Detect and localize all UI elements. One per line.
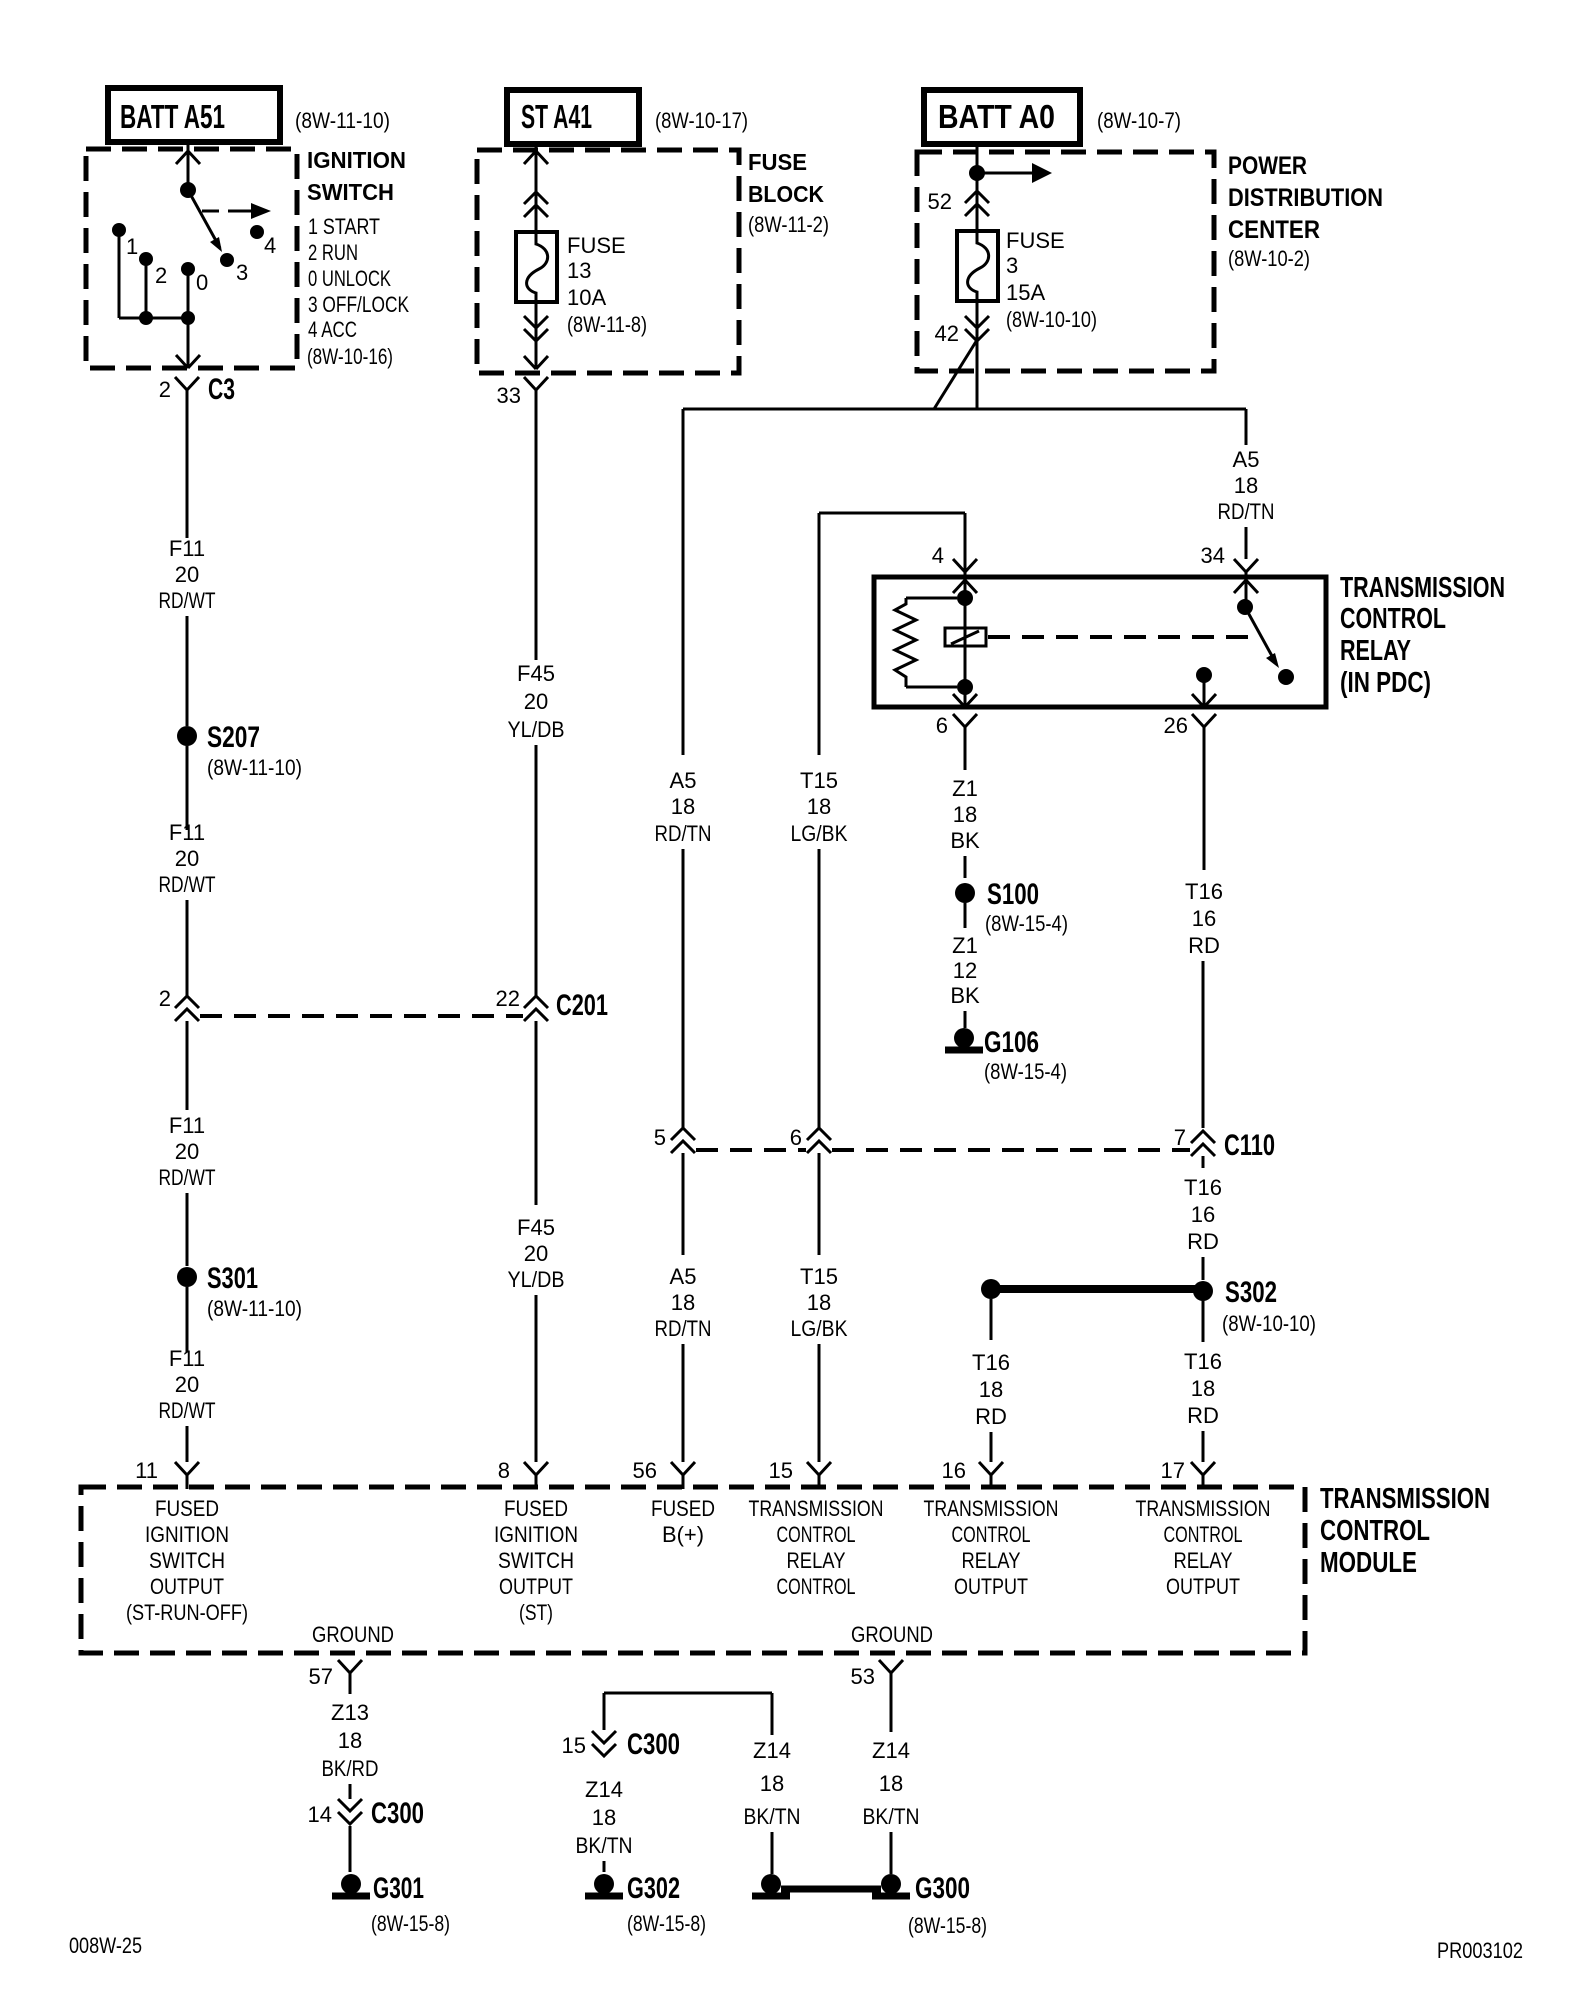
fuse 3 15A <box>957 228 1097 332</box>
wire T15 18 LG/BK (segment 2) <box>791 1264 848 1462</box>
svg-text:13: 13 <box>567 258 591 283</box>
wire T15 18 LG/BK (segment 1) <box>791 768 848 1128</box>
svg-text:Z13: Z13 <box>331 1700 369 1725</box>
drawing number <box>1437 1938 1523 1963</box>
svg-text:RD: RD <box>1187 1403 1219 1428</box>
TCM ground label 53 <box>851 1622 933 1647</box>
wire F45 20 YL/DB (segment 2) <box>508 1215 565 1462</box>
svg-text:56: 56 <box>633 1458 657 1483</box>
svg-text:(8W-10-16): (8W-10-16) <box>307 344 393 369</box>
svg-text:0: 0 <box>196 270 208 295</box>
svg-text:BLOCK: BLOCK <box>748 181 824 207</box>
wire A5 18 RD/TN (segment 2) <box>655 1264 712 1462</box>
svg-text:CENTER: CENTER <box>1228 216 1320 244</box>
svg-text:(8W-15-4): (8W-15-4) <box>985 911 1068 936</box>
wire T16 16 RD (segment 1) <box>1185 879 1223 1128</box>
PDC branch arrow <box>977 163 1052 183</box>
svg-text:RD/WT: RD/WT <box>159 588 216 613</box>
relay pin 4 <box>932 513 977 687</box>
svg-text:RD/TN: RD/TN <box>655 1316 712 1341</box>
connector C110 pin 7 <box>1174 1125 1275 1168</box>
svg-text:S302: S302 <box>1225 1276 1277 1309</box>
wire Z14 18 BK/TN (right) <box>863 1738 920 1874</box>
TCM pin 16 function <box>924 1496 1059 1599</box>
svg-text:BK: BK <box>950 828 980 853</box>
svg-text:18: 18 <box>807 794 831 819</box>
svg-text:12: 12 <box>953 958 977 983</box>
svg-text:18: 18 <box>953 802 977 827</box>
contact 1 START <box>112 223 138 318</box>
svg-text:TRANSMISSION: TRANSMISSION <box>1136 1496 1271 1521</box>
svg-text:T16: T16 <box>1185 879 1223 904</box>
svg-text:RD/TN: RD/TN <box>1218 499 1275 524</box>
svg-text:42: 42 <box>935 321 959 346</box>
svg-text:CONTROL: CONTROL <box>1320 1515 1430 1547</box>
svg-text:18: 18 <box>979 1377 1003 1402</box>
wire Z13 18 BK/RD <box>322 1700 379 1799</box>
svg-text:0 UNLOCK: 0 UNLOCK <box>308 266 391 291</box>
svg-text:TRANSMISSION: TRANSMISSION <box>924 1496 1059 1521</box>
svg-text:(8W-10-2): (8W-10-2) <box>1228 246 1310 271</box>
ground G302 <box>585 1872 706 1936</box>
svg-text:16: 16 <box>1191 1202 1215 1227</box>
svg-text:3: 3 <box>1006 253 1018 278</box>
contact 0 UNLOCK <box>181 262 208 318</box>
TCM pin 8 function <box>494 1496 578 1625</box>
svg-text:RD: RD <box>1187 1229 1219 1254</box>
splice S207 <box>177 721 302 830</box>
svg-text:S207: S207 <box>207 721 260 754</box>
svg-text:G106: G106 <box>984 1026 1039 1059</box>
node BATT A0 feed box <box>924 90 1181 144</box>
TCM pin 16 <box>942 1458 1003 1489</box>
TCM pin 11 <box>135 1458 199 1489</box>
wire T16 16 RD (segment 2) <box>1184 1175 1222 1280</box>
wire relay coil control run <box>819 513 965 755</box>
relay switch common <box>1237 599 1253 615</box>
svg-text:CONTROL: CONTROL <box>952 1522 1031 1547</box>
svg-text:20: 20 <box>175 846 199 871</box>
svg-text:T15: T15 <box>800 1264 838 1289</box>
node ST A41 feed box <box>507 90 748 144</box>
wire Z1 12 BK <box>950 933 980 1028</box>
svg-text:RD: RD <box>1188 933 1220 958</box>
wire pin 42 diagonal branch <box>934 340 977 409</box>
svg-text:18: 18 <box>1234 473 1258 498</box>
svg-text:6: 6 <box>790 1125 802 1150</box>
svg-text:20: 20 <box>524 1241 548 1266</box>
sheet number <box>69 1933 142 1958</box>
svg-text:(8W-11-10): (8W-11-10) <box>207 1296 302 1321</box>
relay switch contact <box>1278 669 1294 685</box>
svg-text:RELAY: RELAY <box>1340 635 1411 667</box>
svg-text:G302: G302 <box>627 1872 680 1905</box>
svg-text:RELAY: RELAY <box>1174 1548 1233 1573</box>
svg-text:SWITCH: SWITCH <box>149 1548 225 1573</box>
svg-text:(8W-10-17): (8W-10-17) <box>655 108 748 133</box>
ignition switch common pole <box>180 182 196 198</box>
svg-text:FUSE: FUSE <box>748 149 807 175</box>
svg-text:(8W-11-10): (8W-11-10) <box>295 108 390 133</box>
svg-text:OUTPUT: OUTPUT <box>499 1574 573 1599</box>
svg-text:LG/BK: LG/BK <box>791 1316 848 1341</box>
svg-text:(8W-11-2): (8W-11-2) <box>748 212 829 237</box>
svg-text:34: 34 <box>1201 543 1225 568</box>
connector pin 33 <box>497 377 548 660</box>
svg-text:DISTRIBUTION: DISTRIBUTION <box>1228 184 1383 212</box>
ignition switch legend <box>307 147 409 369</box>
wire T16 18 RD (to pin 17) <box>1184 1349 1222 1462</box>
svg-text:YL/DB: YL/DB <box>508 1267 565 1292</box>
svg-text:2: 2 <box>155 263 167 288</box>
svg-text:15: 15 <box>769 1458 793 1483</box>
svg-text:BK/TN: BK/TN <box>744 1804 801 1829</box>
svg-text:A5: A5 <box>1233 447 1260 472</box>
svg-text:Z14: Z14 <box>872 1738 910 1763</box>
svg-text:IGNITION: IGNITION <box>145 1522 229 1547</box>
svg-text:57: 57 <box>309 1664 333 1689</box>
svg-text:F45: F45 <box>517 661 555 686</box>
svg-text:18: 18 <box>592 1805 616 1830</box>
svg-text:F45: F45 <box>517 1215 555 1240</box>
wire A5 18 RD/TN to relay 34 <box>1218 409 1275 559</box>
svg-text:RD/WT: RD/WT <box>159 1165 216 1190</box>
svg-text:18: 18 <box>671 794 695 819</box>
svg-text:FUSED: FUSED <box>651 1496 715 1521</box>
dashed connector line C110 <box>696 1148 1190 1152</box>
connector C300 pin 15 <box>562 1728 680 1761</box>
svg-text:TRANSMISSION: TRANSMISSION <box>749 1496 884 1521</box>
connector C201 pin 22 <box>496 986 608 1205</box>
TCM pin 15 function <box>749 1496 884 1599</box>
ignition switch wiper arm <box>188 190 222 252</box>
svg-text:BK/TN: BK/TN <box>863 1804 920 1829</box>
wire T16 18 RD (to pin 16) <box>972 1299 1010 1462</box>
svg-text:15A: 15A <box>1006 280 1045 305</box>
svg-text:T16: T16 <box>972 1350 1010 1375</box>
svg-text:T16: T16 <box>1184 1175 1222 1200</box>
svg-text:F11: F11 <box>169 820 205 845</box>
svg-text:Z1: Z1 <box>952 776 978 801</box>
relay actuation dashed link <box>988 635 1253 639</box>
contact 2 RUN <box>139 252 167 318</box>
svg-text:IGNITION: IGNITION <box>494 1522 578 1547</box>
wire ground jumper <box>604 1693 772 1735</box>
ignition switch rotation arrow <box>202 203 271 219</box>
connector C300 pin 14 <box>308 1797 424 1872</box>
svg-text:5: 5 <box>654 1125 666 1150</box>
heavy ground tie bar <box>781 1886 881 1893</box>
svg-text:BK: BK <box>950 983 980 1008</box>
ground G300 <box>872 1872 987 1938</box>
svg-text:3 OFF/LOCK: 3 OFF/LOCK <box>308 292 409 317</box>
svg-text:4: 4 <box>932 543 944 568</box>
svg-text:2 RUN: 2 RUN <box>308 240 358 265</box>
svg-text:F11: F11 <box>169 1346 205 1371</box>
svg-text:TRANSMISSION: TRANSMISSION <box>1320 1483 1490 1515</box>
svg-text:C300: C300 <box>627 1728 680 1761</box>
TCM pin 57 <box>309 1660 362 1694</box>
svg-text:RELAY: RELAY <box>787 1548 846 1573</box>
svg-text:OUTPUT: OUTPUT <box>1166 1574 1240 1599</box>
svg-text:RELAY: RELAY <box>962 1548 1021 1573</box>
wire Z14 18 BK/TN (left) <box>576 1777 633 1872</box>
wire A5 branch down-left <box>682 409 685 755</box>
relay switch arm <box>1245 607 1279 668</box>
svg-text:B(+): B(+) <box>662 1522 704 1547</box>
svg-text:OUTPUT: OUTPUT <box>954 1574 1028 1599</box>
dashed connector line C201 <box>200 1014 523 1018</box>
svg-text:F11: F11 <box>169 536 205 561</box>
svg-text:20: 20 <box>524 689 548 714</box>
svg-text:FUSED: FUSED <box>504 1496 568 1521</box>
svg-text:(8W-15-8): (8W-15-8) <box>371 1911 450 1936</box>
svg-text:17: 17 <box>1161 1458 1185 1483</box>
svg-text:OUTPUT: OUTPUT <box>150 1574 224 1599</box>
svg-text:11: 11 <box>135 1458 158 1483</box>
svg-text:BATT A51: BATT A51 <box>120 98 225 135</box>
svg-text:(8W-10-10): (8W-10-10) <box>1222 1311 1316 1336</box>
power distribution center legend <box>1228 152 1383 271</box>
svg-text:PR003102: PR003102 <box>1437 1938 1523 1963</box>
svg-text:F11: F11 <box>169 1113 205 1138</box>
wire Z1 18 BK <box>950 776 980 878</box>
splice branch wire (heavy) <box>981 1279 1196 1299</box>
TCM pin 17 function <box>1136 1496 1271 1599</box>
svg-text:10A: 10A <box>567 285 606 310</box>
svg-text:RD: RD <box>975 1404 1007 1429</box>
fuse block box <box>477 150 739 373</box>
relay suppression resistor <box>895 598 957 687</box>
svg-text:1 START: 1 START <box>308 214 380 239</box>
svg-text:26: 26 <box>1164 713 1188 738</box>
ground G106 <box>945 1026 1067 1084</box>
TCM pin 11 function <box>126 1496 248 1625</box>
svg-text:18: 18 <box>338 1728 362 1753</box>
svg-text:3: 3 <box>236 260 248 285</box>
svg-text:MODULE: MODULE <box>1320 1547 1417 1579</box>
TCM ground label 57 <box>312 1622 394 1647</box>
svg-text:A5: A5 <box>670 1264 697 1289</box>
svg-text:(8W-10-10): (8W-10-10) <box>1006 307 1097 332</box>
splice S301 <box>177 1262 302 1352</box>
fuse 13 10A <box>516 232 647 337</box>
relay pin 6 <box>936 687 977 770</box>
connector C110 pin 5 <box>654 1125 695 1255</box>
svg-text:18: 18 <box>1191 1376 1215 1401</box>
relay pin 34 <box>1201 543 1258 607</box>
PDC pin 42 <box>935 302 989 409</box>
relay legend <box>1340 572 1505 699</box>
wire Z14 18 BK/TN (middle) <box>744 1738 801 1874</box>
svg-text:18: 18 <box>671 1290 695 1315</box>
svg-text:(8W-10-7): (8W-10-7) <box>1097 108 1181 133</box>
svg-text:16: 16 <box>942 1458 966 1483</box>
svg-text:C110: C110 <box>1224 1129 1275 1162</box>
svg-text:RD/WT: RD/WT <box>159 1398 216 1423</box>
wire A5 18 RD/TN (segment 1) <box>655 768 712 1128</box>
svg-text:20: 20 <box>175 1139 199 1164</box>
svg-text:20: 20 <box>175 562 199 587</box>
fuse block legend <box>748 149 829 237</box>
relay coil node top <box>957 590 973 606</box>
svg-text:S301: S301 <box>207 1262 258 1295</box>
svg-text:20: 20 <box>175 1372 199 1397</box>
relay coil <box>945 628 986 646</box>
svg-text:7: 7 <box>1174 1125 1186 1150</box>
svg-text:C201: C201 <box>556 989 608 1022</box>
svg-text:POWER: POWER <box>1228 152 1307 180</box>
wire F11 20 RD/WT (segment 4) <box>159 1346 216 1462</box>
wire A0 distribution horizontal <box>683 408 1246 411</box>
svg-text:15: 15 <box>562 1733 586 1758</box>
relay pin 26 <box>1164 667 1216 870</box>
svg-text:2: 2 <box>159 377 171 402</box>
svg-text:33: 33 <box>497 383 521 408</box>
svg-text:(8W-11-10): (8W-11-10) <box>207 755 302 780</box>
TCM pin 17 <box>1161 1458 1215 1489</box>
contact 4 ACC <box>250 225 276 258</box>
wire BATT A51 to ignition switch <box>176 142 200 190</box>
connector C201 pin 2 <box>159 986 199 1110</box>
svg-text:YL/DB: YL/DB <box>508 717 565 742</box>
ground G301 <box>332 1872 450 1936</box>
switch output bus <box>119 311 200 368</box>
svg-text:BATT A0: BATT A0 <box>938 98 1055 135</box>
wire F45 20 YL/DB (segment 1) <box>508 661 565 996</box>
power distribution center box <box>917 152 1214 371</box>
transmission control module box <box>81 1487 1305 1653</box>
svg-text:(8W-15-8): (8W-15-8) <box>627 1911 706 1936</box>
svg-text:CONTROL: CONTROL <box>1340 603 1446 635</box>
splice S302 <box>1193 1276 1316 1342</box>
svg-text:T16: T16 <box>1184 1349 1222 1374</box>
svg-text:A5: A5 <box>670 768 697 793</box>
svg-text:BK/TN: BK/TN <box>576 1833 633 1858</box>
TCM pin 15 <box>769 1458 831 1489</box>
svg-text:008W-25: 008W-25 <box>69 1933 142 1958</box>
wire ST A41 into fuse block <box>524 144 548 232</box>
svg-text:(8W-11-8): (8W-11-8) <box>567 312 647 337</box>
svg-text:Z1: Z1 <box>952 933 978 958</box>
svg-text:4: 4 <box>264 233 276 258</box>
svg-text:C300: C300 <box>371 1797 424 1830</box>
svg-text:Z14: Z14 <box>753 1738 791 1763</box>
ground stud left of G300 <box>752 1874 790 1896</box>
svg-text:G300: G300 <box>915 1872 970 1905</box>
wire F11 20 RD/WT (segment 2) <box>159 820 216 996</box>
connector C3 pin 2 <box>159 373 235 538</box>
node BATT A51 feed box <box>108 88 390 142</box>
connector C110 pin 6 <box>790 1125 831 1255</box>
svg-text:FUSED: FUSED <box>155 1496 219 1521</box>
svg-text:2: 2 <box>159 986 171 1011</box>
svg-text:22: 22 <box>496 986 520 1011</box>
wire BATT A0 into PDC <box>928 144 989 231</box>
wire F11 20 RD/WT (segment 3) <box>159 1113 216 1266</box>
wire fuse to connector 33 <box>524 302 548 369</box>
svg-text:14: 14 <box>308 1802 332 1827</box>
svg-text:T15: T15 <box>800 768 838 793</box>
relay K1 box <box>874 577 1326 707</box>
svg-text:BK/RD: BK/RD <box>322 1756 379 1781</box>
TCM pin 8 <box>498 1458 548 1489</box>
svg-text:1: 1 <box>126 234 138 259</box>
svg-text:18: 18 <box>760 1771 784 1796</box>
svg-text:S100: S100 <box>987 878 1039 911</box>
svg-text:CONTROL: CONTROL <box>777 1574 856 1599</box>
svg-text:ST A41: ST A41 <box>521 98 592 135</box>
svg-text:FUSE: FUSE <box>1006 228 1065 253</box>
svg-text:GROUND: GROUND <box>851 1622 933 1647</box>
TCM pin 56 function <box>651 1496 715 1547</box>
svg-text:52: 52 <box>928 189 952 214</box>
svg-text:(IN PDC): (IN PDC) <box>1340 667 1431 699</box>
svg-text:RD/TN: RD/TN <box>655 821 712 846</box>
TCM legend <box>1320 1483 1490 1579</box>
svg-text:Z14: Z14 <box>585 1777 623 1802</box>
svg-text:SWITCH: SWITCH <box>307 179 394 205</box>
svg-text:CONTROL: CONTROL <box>1164 1522 1243 1547</box>
svg-text:53: 53 <box>851 1664 875 1689</box>
svg-text:G301: G301 <box>373 1872 424 1905</box>
relay coil node bottom <box>957 679 973 695</box>
svg-text:C3: C3 <box>208 373 235 406</box>
svg-text:IGNITION: IGNITION <box>307 147 406 173</box>
svg-text:4 ACC: 4 ACC <box>308 317 357 342</box>
svg-text:CONTROL: CONTROL <box>777 1522 856 1547</box>
contact 3 OFF/LOCK <box>220 253 248 285</box>
svg-text:16: 16 <box>1192 906 1216 931</box>
svg-text:(8W-15-4): (8W-15-4) <box>984 1059 1067 1084</box>
splice S100 <box>955 878 1068 936</box>
svg-text:6: 6 <box>936 713 948 738</box>
svg-text:RD/WT: RD/WT <box>159 872 216 897</box>
svg-text:8: 8 <box>498 1458 510 1483</box>
svg-text:(ST-RUN-OFF): (ST-RUN-OFF) <box>126 1600 248 1625</box>
svg-text:GROUND: GROUND <box>312 1622 394 1647</box>
TCM pin 56 <box>633 1458 695 1489</box>
svg-text:(ST): (ST) <box>519 1600 553 1625</box>
svg-text:TRANSMISSION: TRANSMISSION <box>1340 572 1505 604</box>
TCM pin 53 <box>851 1660 903 1732</box>
svg-text:18: 18 <box>879 1771 903 1796</box>
svg-text:SWITCH: SWITCH <box>498 1548 574 1573</box>
svg-text:LG/BK: LG/BK <box>791 821 848 846</box>
ignition switch box <box>86 149 297 368</box>
svg-text:FUSE: FUSE <box>567 233 626 258</box>
svg-text:(8W-15-8): (8W-15-8) <box>908 1913 987 1938</box>
wire F11 20 RD/WT (segment 1) <box>159 536 216 726</box>
svg-text:18: 18 <box>807 1290 831 1315</box>
